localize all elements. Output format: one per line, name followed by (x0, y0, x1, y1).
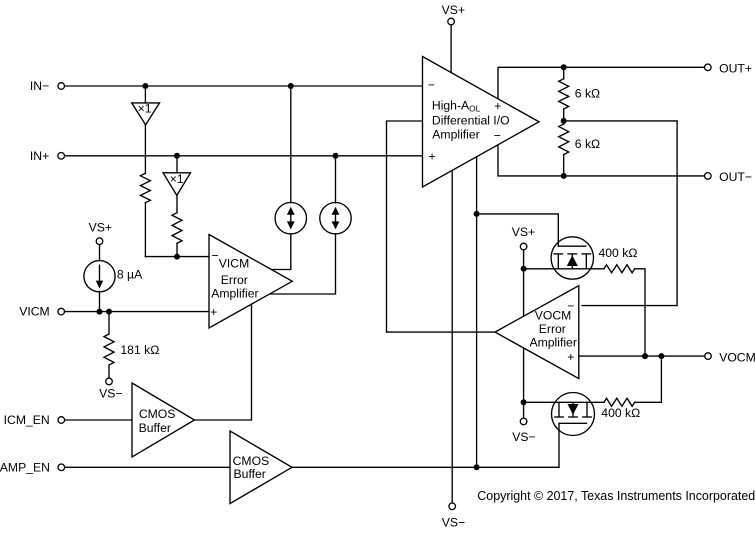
svg-text:+: + (428, 149, 435, 163)
svg-text:×1: ×1 (170, 172, 184, 186)
svg-text:AMP_EN: AMP_EN (0, 460, 50, 474)
svg-text:+: + (494, 99, 501, 113)
svg-text:CMOS: CMOS (139, 407, 176, 421)
svg-text:+: + (567, 350, 574, 364)
svg-text:VICM: VICM (19, 305, 49, 319)
svg-text:VICM: VICM (219, 257, 249, 271)
svg-text:8 µA: 8 µA (117, 268, 143, 282)
svg-text:IN+: IN+ (30, 149, 49, 163)
svg-text:6 kΩ: 6 kΩ (575, 137, 600, 151)
svg-text:Buffer: Buffer (139, 421, 171, 435)
svg-text:VOCM: VOCM (535, 309, 572, 323)
svg-text:−: − (428, 78, 435, 92)
svg-text:VS−: VS− (442, 515, 465, 529)
svg-text:OUT−: OUT− (719, 170, 752, 184)
svg-text:−: − (494, 129, 501, 143)
svg-text:Differential I/O: Differential I/O (432, 113, 510, 127)
svg-text:Error: Error (539, 322, 566, 336)
svg-text:VS−: VS− (99, 387, 122, 401)
svg-text:Error: Error (221, 273, 248, 287)
svg-text:VS−: VS− (512, 430, 535, 444)
svg-text:ICM_EN: ICM_EN (4, 413, 50, 427)
svg-text:400 kΩ: 400 kΩ (599, 246, 638, 260)
svg-text:−: − (567, 299, 574, 313)
svg-text:OUT+: OUT+ (719, 61, 752, 75)
svg-text:VS+: VS+ (442, 3, 465, 17)
svg-text:Amplifier: Amplifier (529, 335, 576, 349)
svg-text:Amplifier: Amplifier (211, 286, 258, 300)
svg-text:−: − (211, 249, 218, 263)
svg-text:Amplifier: Amplifier (432, 128, 479, 142)
svg-text:IN−: IN− (30, 79, 49, 93)
svg-text:6 kΩ: 6 kΩ (575, 86, 600, 100)
svg-text:VS+: VS+ (89, 220, 112, 234)
svg-text:×1: ×1 (138, 102, 152, 116)
svg-text:VS+: VS+ (512, 225, 535, 239)
svg-text:181 kΩ: 181 kΩ (120, 343, 159, 357)
svg-text:400 kΩ: 400 kΩ (601, 406, 640, 420)
svg-text:Copyright © 2017, Texas Instru: Copyright © 2017, Texas Instruments Inco… (477, 489, 755, 503)
svg-text:CMOS: CMOS (233, 454, 270, 468)
svg-text:+: + (210, 305, 217, 319)
svg-text:Buffer: Buffer (234, 467, 266, 481)
svg-text:VOCM: VOCM (719, 350, 755, 364)
